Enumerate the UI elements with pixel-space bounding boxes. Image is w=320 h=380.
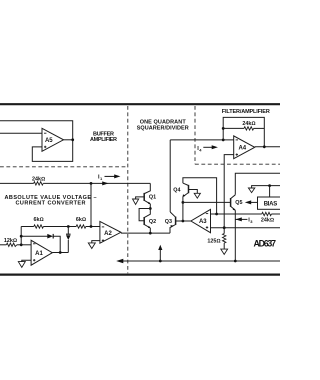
node A2 inverting xyxy=(90,225,93,228)
wire I4 line to A4 xyxy=(170,139,234,141)
svg-text:125Ω: 125Ω xyxy=(207,239,220,245)
wire D1 line xyxy=(21,236,60,252)
node D1 to output xyxy=(59,251,62,254)
wire Q1 base to ground xyxy=(136,197,145,199)
wire Q4 emitter down xyxy=(182,197,184,203)
svg-text:24kΩ: 24kΩ xyxy=(32,176,45,182)
bottom border rule xyxy=(0,274,280,276)
wire bottom bus with arrow xyxy=(116,259,280,263)
wire 6k feedback line xyxy=(21,226,100,228)
svg-text:SQUARER/DIVIDER: SQUARER/DIVIDER xyxy=(137,125,189,131)
ground A1 positive input xyxy=(18,260,31,267)
ground Q4 base xyxy=(194,193,200,198)
label I3 xyxy=(235,217,253,224)
resistor 24k (input) xyxy=(32,176,45,185)
transistor Q1 xyxy=(144,193,156,204)
node A4 feedback resistor tap xyxy=(222,127,225,130)
wire Q4 collector loop to A3 inverting xyxy=(183,178,217,214)
dashed divider vertical (squarer left) xyxy=(127,106,129,273)
label I4 xyxy=(197,145,218,152)
ground Q1 base xyxy=(133,199,139,205)
wire A4 noninverting down xyxy=(224,155,234,228)
transistor Q4 (mirrored) xyxy=(173,183,188,197)
wire A2 output to squarer xyxy=(121,232,170,234)
svg-text:AD637: AD637 xyxy=(254,238,277,248)
resistor 6k second xyxy=(76,217,86,228)
wire Q4 base to ground xyxy=(189,190,198,194)
svg-text:Q3: Q3 xyxy=(165,219,172,225)
svg-text:AMPLIFIER: AMPLIFIER xyxy=(90,137,117,143)
svg-text:Q2: Q2 xyxy=(149,219,156,225)
node bus up arrow xyxy=(159,260,162,263)
wire Q1 emitter to node xyxy=(149,204,151,209)
transistor Q5 xyxy=(231,195,243,211)
diode D2 vertical xyxy=(66,227,71,253)
label AD637 xyxy=(254,238,277,248)
op-amp A3 (points left) xyxy=(191,209,211,232)
svg-text:A4: A4 xyxy=(238,146,246,152)
wire supply to bias box xyxy=(269,186,271,197)
wire A3 noninverting line to edge xyxy=(211,227,281,229)
node Q4 emitter junction xyxy=(182,201,185,204)
label I1 xyxy=(98,174,120,181)
node X between 6k resistors xyxy=(67,225,70,228)
dashed divider horizontal (filter bottom) xyxy=(195,163,280,165)
svg-text:A2: A2 xyxy=(104,231,112,237)
svg-text:Q5: Q5 xyxy=(235,200,242,206)
op-amp A2 xyxy=(100,221,121,243)
svg-text:BIAS: BIAS xyxy=(264,201,278,207)
wire A4 feedback left vertical xyxy=(223,117,264,146)
op-amp A1 xyxy=(31,240,52,265)
node A1 inverting xyxy=(20,243,23,246)
wire Q3 base xyxy=(176,220,191,222)
wire A3 inverting line with 24k to edge xyxy=(211,213,281,215)
wire Q2 base loop xyxy=(139,209,150,221)
transistor Q2 xyxy=(144,209,156,229)
svg-text:FILTER/AMPLIFIER: FILTER/AMPLIFIER xyxy=(222,109,270,115)
wire node to Q3 base xyxy=(182,202,184,221)
svg-text:24kΩ: 24kΩ xyxy=(261,218,274,224)
wire Q5 emitter down to bus xyxy=(234,210,236,261)
svg-text:24kΩ: 24kΩ xyxy=(242,121,255,127)
svg-text:A3: A3 xyxy=(199,219,207,225)
dashed divider horizontal (buffer/abs) xyxy=(0,166,128,168)
resistor 24k (filter feedback) xyxy=(242,121,255,130)
resistor 12k xyxy=(4,238,17,246)
dashed divider vertical (filter left) xyxy=(194,106,196,164)
bias box xyxy=(258,197,282,209)
wire Q2 emitter down xyxy=(149,228,151,233)
node A4 output feedback xyxy=(263,145,266,148)
node A5 output xyxy=(71,138,74,141)
svg-text:6kΩ: 6kΩ xyxy=(76,217,86,223)
ground A2 positive input xyxy=(88,241,100,249)
svg-text:Q4: Q4 xyxy=(173,187,180,193)
transistor Q3 (mirrored) xyxy=(165,212,176,228)
wire Q5 collector to edge xyxy=(235,173,280,195)
wire buffer inverting input xyxy=(0,132,42,134)
current arrow on wire I1 xyxy=(102,181,108,185)
label section absolute value xyxy=(5,195,97,207)
label section filter amplifier xyxy=(222,109,270,115)
wire Q3 collector up to I4 line xyxy=(169,140,171,212)
node bias supply tap xyxy=(268,184,271,187)
resistor 24k (denominator) xyxy=(261,212,274,223)
wire Q3 emitter elbow xyxy=(170,225,176,234)
node Q1 emitter Q2 collector xyxy=(149,207,152,210)
current arrow up from bus xyxy=(158,245,162,261)
label arrow bias to Q5 xyxy=(245,200,258,204)
node Q2 emitter on A2 line xyxy=(149,232,152,235)
supply arrow below 125 ohm xyxy=(221,249,228,254)
op-amp A4 xyxy=(234,136,255,159)
label section one quadrant squarer xyxy=(137,120,189,132)
node A3 noninverting junction xyxy=(223,226,226,229)
node top line to A2 xyxy=(90,182,93,185)
node A3 inverting junction xyxy=(215,213,218,216)
diode D1 xyxy=(47,234,53,239)
resistor 6k first xyxy=(34,217,44,228)
svg-text:6kΩ: 6kΩ xyxy=(34,217,44,223)
svg-text:Q1: Q1 xyxy=(149,195,156,201)
top border rule xyxy=(0,103,280,105)
node diode D1 tap xyxy=(20,235,23,238)
supply rail with arrow near Q5 xyxy=(248,186,280,193)
svg-text:12kΩ: 12kΩ xyxy=(4,238,17,244)
svg-text:A5: A5 xyxy=(45,138,53,144)
node Q3 base junction xyxy=(182,220,185,223)
node A4 inverting xyxy=(222,139,225,142)
svg-text:CURRENT CONVERTER: CURRENT CONVERTER xyxy=(16,200,86,206)
label section buffer amplifier xyxy=(90,131,117,143)
wire A1 output xyxy=(52,252,68,254)
wire Q4 emitter to Q5 base xyxy=(183,201,231,203)
wire buffer top line xyxy=(0,121,73,162)
wire A4 output to edge xyxy=(255,146,280,148)
wire Q1 collector drop xyxy=(145,183,151,193)
wire A4 feedback resistor line xyxy=(223,127,264,129)
wire 12k input line xyxy=(0,244,31,246)
wire A2 inverting feed vertical xyxy=(90,183,92,226)
op-amp A5 xyxy=(42,128,64,151)
svg-text:A1: A1 xyxy=(35,251,43,257)
node bus Q5 emitter xyxy=(234,260,237,263)
wire abs input line (24k) xyxy=(0,182,150,184)
resistor 125 ohm vertical xyxy=(207,228,226,249)
wire A1 inverting branch vertical xyxy=(20,227,22,245)
wire A5 output xyxy=(64,139,73,141)
